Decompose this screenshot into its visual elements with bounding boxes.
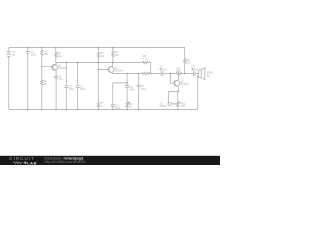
svg-text:100: 100 (186, 62, 191, 65)
svg-text:100: 100 (176, 70, 181, 73)
svg-text:http:∕∕circuitlab.com∕c6xw25z: http:∕∕circuitlab.com∕c6xw25z (45, 160, 86, 164)
svg-text:2N3904: 2N3904 (180, 83, 189, 86)
svg-text:100: 100 (181, 105, 186, 108)
svg-text:100n: 100n (69, 88, 75, 91)
svg-text:100uF: 100uF (191, 68, 198, 71)
svg-text:100uF: 100uF (160, 68, 167, 71)
svg-text:2N3904: 2N3904 (58, 67, 67, 70)
svg-text:100n: 100n (129, 89, 135, 92)
svg-text:1N914: 1N914 (159, 105, 167, 108)
svg-text:10uF: 10uF (115, 107, 121, 110)
svg-text:2N3904: 2N3904 (114, 70, 123, 73)
svg-text:8Ω: 8Ω (207, 74, 210, 77)
svg-text:100n: 100n (80, 88, 86, 91)
svg-text:9V: 9V (12, 54, 15, 57)
svg-text:10uF: 10uF (141, 88, 147, 91)
svg-text:100n: 100n (31, 54, 37, 57)
svg-text:4.7k: 4.7k (143, 58, 148, 61)
svg-text:47u: 47u (59, 78, 64, 81)
svg-text:LAB: LAB (27, 161, 37, 165)
